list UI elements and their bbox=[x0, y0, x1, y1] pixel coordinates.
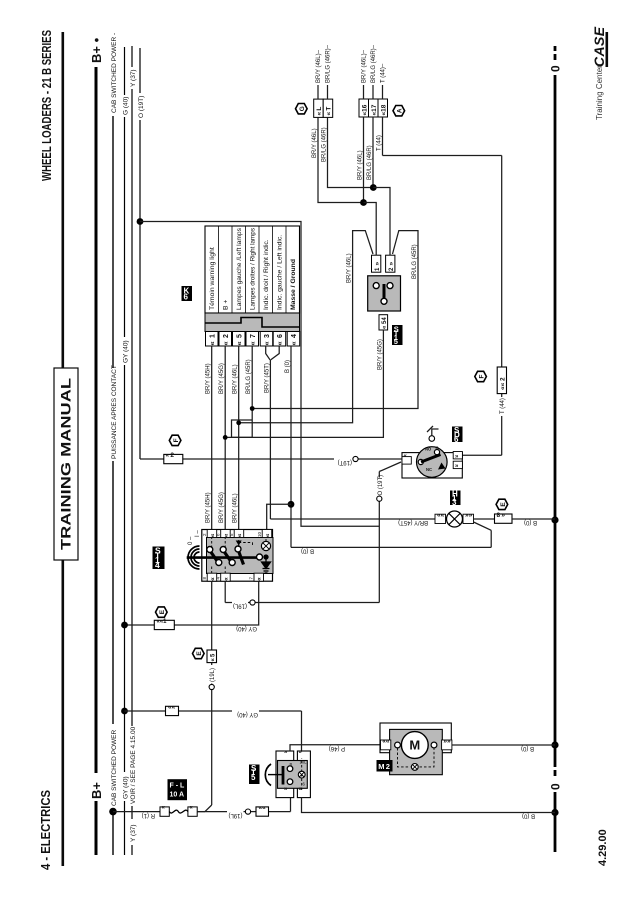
junction ground-ST5 bbox=[551, 809, 558, 816]
wire BR/Y (46L) K6 pin5 to ST14 pin5 bbox=[238, 346, 240, 530]
label K6 bbox=[182, 286, 193, 302]
hexagon G bbox=[296, 104, 308, 114]
svg-text:BR/Y (45G): BR/Y (45G) bbox=[377, 339, 383, 370]
wire B (0) M2 to ground bus bbox=[452, 744, 555, 746]
pressure switch SD6 input cell bbox=[402, 454, 411, 464]
wire 19L fuse to ST14 pin8 bbox=[197, 581, 212, 811]
wire BR/Y (45H) K6 pin1 to ST14 pin2 bbox=[211, 346, 213, 530]
switch ST14 contact circles bbox=[207, 546, 263, 566]
svg-text:GY (40): GY (40) bbox=[123, 776, 130, 799]
svg-text:10: 10 bbox=[257, 531, 262, 537]
switch ST14 lamp bbox=[261, 541, 270, 550]
svg-text:BR/Y (45T): BR/Y (45T) bbox=[264, 363, 270, 393]
junction GY bus ST5 dropper bbox=[121, 708, 128, 715]
svg-text:(19L): (19L) bbox=[233, 603, 247, 609]
svg-text:BR/LG (45R): BR/LG (45R) bbox=[412, 244, 418, 279]
svg-text:8 »: 8 » bbox=[497, 512, 506, 519]
svg-text:«18: «18 bbox=[381, 104, 388, 115]
wire GY(40) bus to ST14 pin7 bbox=[125, 581, 259, 625]
hexagon F near tag 2 bbox=[475, 371, 487, 381]
svg-text:B+ •: B+ • bbox=[89, 37, 104, 63]
svg-text:«« 2: «« 2 bbox=[500, 377, 507, 390]
svg-text:«16: «16 bbox=[362, 104, 369, 115]
flasher ST15 body bbox=[368, 276, 401, 311]
label ST15 bbox=[392, 325, 403, 347]
bus CAB SWITCHED POWER bbox=[112, 116, 114, 855]
switch ST14 left pin cells bbox=[207, 573, 263, 581]
switch ST5 pin arrows bbox=[284, 750, 303, 793]
svg-text:G: G bbox=[299, 106, 306, 111]
svg-text:4: 4 bbox=[155, 560, 160, 570]
hexagon A bbox=[393, 106, 405, 116]
svg-text:«: « bbox=[264, 533, 271, 537]
wire B (0) K6 pin4 bbox=[290, 346, 292, 547]
connector K6 pin numbers and arrows bbox=[210, 334, 299, 338]
svg-text:WHEEL LOADERS - 21 B SERIES: WHEEL LOADERS - 21 B SERIES bbox=[39, 30, 54, 181]
svg-text:10 A: 10 A bbox=[170, 792, 185, 799]
junction ground-H13 bbox=[551, 516, 558, 523]
svg-text:««: «« bbox=[259, 805, 267, 812]
switch ST5 contacts bbox=[283, 766, 293, 785]
svg-text:BR/LG (46R)–: BR/LG (46R)– bbox=[371, 44, 377, 83]
wire BR/Y (46L) bracket from K6 pin5 riser to flasher pin1 bbox=[239, 231, 373, 423]
svg-text:BR/LG (45R): BR/LG (45R) bbox=[246, 359, 252, 394]
wire B (0) branch to ST14 pin10 bbox=[267, 504, 291, 529]
svg-text:10L: 10L bbox=[300, 760, 308, 765]
svg-text:6: 6 bbox=[215, 533, 220, 536]
switch ST14 pin numbers bbox=[202, 531, 262, 579]
svg-text:»: » bbox=[388, 262, 395, 266]
svg-text:6: 6 bbox=[184, 293, 189, 302]
pressure switch SD6 body bbox=[402, 447, 462, 478]
bus O (19T) bbox=[139, 48, 141, 459]
svg-text:BR/Y (45H): BR/Y (45H) bbox=[206, 492, 212, 523]
connector cell 18 bbox=[378, 99, 388, 117]
connector cell 17 bbox=[369, 99, 379, 117]
junction GY bus pin7 dropper bbox=[121, 622, 128, 629]
svg-text:GY (40): GY (40) bbox=[236, 625, 257, 631]
tag connector on fuse wire bbox=[256, 805, 269, 817]
svg-text:F: F bbox=[478, 374, 485, 378]
junction ground-M2 bbox=[551, 741, 558, 748]
header rule bbox=[62, 32, 65, 866]
wire BR/Y (45G) K6 pin2 to ST14 pin6 bbox=[224, 346, 226, 530]
svg-text:6: 6 bbox=[277, 334, 284, 338]
svg-text:T (44): T (44) bbox=[377, 135, 383, 151]
svg-text:M: M bbox=[409, 738, 420, 753]
hexagon F near dropper tag bbox=[169, 435, 181, 445]
svg-text:CAB SWITCHED POWER: CAB SWITCHED POWER bbox=[111, 729, 118, 806]
label M2 bbox=[377, 760, 393, 772]
svg-text:BR/Y (46L)–: BR/Y (46L)– bbox=[362, 49, 368, 83]
connector K6 body bbox=[205, 226, 300, 313]
wire BR/LG (45R) K6 pin7 bbox=[251, 346, 253, 437]
label ST5 bbox=[249, 764, 260, 784]
hexagon E near tag 1 bbox=[156, 607, 168, 617]
switch ST14 lever arcs bbox=[188, 546, 200, 569]
tag connector 1 on pin7 dropper bbox=[154, 619, 174, 630]
svg-text:BR/Y (45G): BR/Y (45G) bbox=[219, 492, 225, 523]
svg-text:T (44): T (44) bbox=[500, 398, 506, 414]
wire BR/Y (46L) from connector L bbox=[318, 117, 364, 202]
switch ST5 dashed link bbox=[301, 758, 303, 790]
splice circle on pin8 wire bbox=[209, 684, 214, 689]
tag connector 2 on T44 wire bbox=[497, 367, 506, 394]
svg-text:BR/Y (46L)–: BR/Y (46L)– bbox=[316, 49, 322, 83]
motor M2 body bbox=[380, 723, 451, 775]
junction K6 pin5 riser bbox=[236, 420, 241, 425]
svg-text:E: E bbox=[500, 502, 507, 507]
svg-text:4 - ELECTRICS: 4 - ELECTRICS bbox=[38, 790, 53, 870]
pressure switch SD6 external terminal bbox=[427, 426, 439, 441]
svg-text:7: 7 bbox=[249, 577, 254, 580]
svg-text:GY (40): GY (40) bbox=[123, 340, 130, 363]
svg-text:PUISSANCE APRES CONTACT: PUISSANCE APRES CONTACT bbox=[111, 365, 118, 459]
connector cell L bbox=[314, 99, 324, 117]
svg-text:B +: B + bbox=[223, 300, 230, 310]
svg-text:»»: »» bbox=[465, 512, 473, 519]
junction CAB bus fuse dropper bbox=[109, 808, 117, 816]
motor M2 output cell bbox=[442, 738, 452, 750]
svg-text:««: «« bbox=[437, 512, 445, 519]
svg-text:7: 7 bbox=[250, 334, 257, 338]
svg-text:2: 2 bbox=[223, 334, 230, 338]
svg-text:NO: NO bbox=[425, 447, 432, 452]
junction 45G riser at K6 pin2 wire bbox=[223, 435, 228, 440]
wire ST5 ground return bbox=[302, 798, 556, 813]
svg-text:CASE: CASE bbox=[591, 26, 607, 67]
motor M2 input cell bbox=[381, 738, 391, 750]
wire P (46) ST5 to M2 bbox=[290, 745, 380, 751]
svg-text:Lampes droites / Right lamps: Lampes droites / Right lamps bbox=[250, 227, 257, 310]
switch ST5 pin numbers bbox=[290, 760, 308, 787]
lamp H13 input cell bbox=[435, 512, 446, 524]
svg-text:GY (40): GY (40) bbox=[237, 711, 258, 717]
wire O (19T) horizontal run bbox=[379, 462, 401, 603]
svg-text:M: M bbox=[378, 762, 384, 771]
wire B (0) H13 to ground bus bbox=[512, 518, 555, 520]
switch ST14 dashed links bbox=[212, 538, 266, 574]
label ST14 bbox=[153, 546, 165, 570]
label F-L 10A bbox=[168, 779, 188, 800]
connector K6 row labels bbox=[209, 227, 297, 310]
svg-text:«: « bbox=[248, 341, 257, 345]
wire BR/Y (45T) K6 pins 3+6 merge bbox=[266, 346, 280, 519]
motor M2 dashed park circuit bbox=[398, 748, 435, 767]
svg-text:BR/Y (45T): BR/Y (45T) bbox=[398, 519, 428, 525]
svg-text:O (19T): O (19T) bbox=[378, 475, 384, 496]
tag connector 2 on SD6 dropper bbox=[164, 452, 183, 464]
svg-text:B (0): B (0) bbox=[524, 519, 537, 525]
svg-text:3: 3 bbox=[452, 498, 457, 507]
svg-text:««: «« bbox=[168, 704, 176, 711]
svg-text:BR/Y (46L): BR/Y (46L) bbox=[347, 253, 353, 283]
svg-text:« L: « L bbox=[316, 107, 323, 116]
svg-text:Indic. droit / Right indic.: Indic. droit / Right indic. bbox=[263, 239, 270, 310]
training manual title box bbox=[54, 368, 78, 560]
switch ST5 body bbox=[276, 751, 310, 798]
svg-text:4: 4 bbox=[215, 577, 220, 580]
connector cell 16 bbox=[359, 99, 369, 117]
label H13 bbox=[450, 490, 461, 507]
svg-text:F: F bbox=[173, 438, 180, 442]
CASE logo bbox=[591, 26, 608, 67]
ground bus 0 bbox=[554, 46, 557, 852]
svg-text:«: « bbox=[236, 533, 243, 537]
svg-text:BR/Y (45G): BR/Y (45G) bbox=[219, 363, 225, 394]
flasher ST15 contacts bbox=[373, 283, 393, 305]
wire hop detail near riser bbox=[232, 420, 253, 437]
switch ST14 pin arrows bbox=[209, 533, 271, 581]
svg-text:0: 0 bbox=[549, 783, 563, 790]
svg-text:«: « bbox=[223, 577, 230, 581]
svg-text:4.29.00: 4.29.00 bbox=[597, 829, 609, 866]
connector cell T bbox=[323, 99, 333, 117]
svg-text:2: 2 bbox=[386, 762, 390, 771]
svg-text:«: « bbox=[235, 341, 244, 345]
wire GY (40) bus to ST5 right pin bbox=[125, 711, 302, 751]
wire BR/LG (45R) from K6 pin7 dropper to flasher pin2 bbox=[252, 231, 418, 409]
svg-text:Témoin warning light: Témoin warning light bbox=[209, 247, 216, 310]
svg-text:(19T): (19T) bbox=[338, 459, 352, 465]
splice circle on dropper bbox=[353, 456, 358, 461]
wire 19L ST14 pin4 to 19T run bbox=[225, 581, 379, 602]
svg-text:Masse / Ground: Masse / Ground bbox=[290, 259, 297, 310]
wire BR/LG (46R) from connector T bbox=[328, 117, 374, 187]
svg-text:G (40): G (40) bbox=[123, 97, 130, 115]
svg-text:BR/Y (46L): BR/Y (46L) bbox=[312, 128, 318, 158]
svg-text:(19L): (19L) bbox=[210, 668, 216, 682]
svg-text:5: 5 bbox=[394, 337, 398, 346]
svg-text:2: 2 bbox=[202, 533, 207, 536]
tag connector 8 on H13 ground wire bbox=[495, 512, 513, 524]
svg-text:E: E bbox=[196, 651, 203, 656]
svg-text:BR/Y (46L): BR/Y (46L) bbox=[233, 493, 239, 523]
switch ST5 lever arc bbox=[265, 764, 283, 786]
svg-text:6: 6 bbox=[454, 435, 459, 444]
svg-text:«17: «17 bbox=[371, 104, 378, 115]
wire H13 to tag 8 bbox=[474, 518, 495, 520]
svg-text:Y (37): Y (37) bbox=[130, 824, 137, 842]
svg-text:« 5: « 5 bbox=[210, 653, 216, 662]
svg-text:A: A bbox=[397, 108, 404, 113]
svg-text:»: » bbox=[284, 750, 289, 756]
svg-text:Indic. gauche / Left indic.: Indic. gauche / Left indic. bbox=[277, 235, 284, 310]
junction B(0) branch bbox=[288, 501, 295, 508]
switch ST14 body bbox=[202, 530, 273, 582]
svg-text:« 2: « 2 bbox=[166, 452, 175, 459]
svg-text:5: 5 bbox=[229, 533, 234, 536]
svg-text:1: 1 bbox=[375, 267, 381, 271]
svg-text:1: 1 bbox=[210, 334, 217, 338]
svg-text:O (19T): O (19T) bbox=[138, 96, 145, 118]
connector K6 pin cells bbox=[206, 332, 300, 347]
svg-text:BR/LG (46R): BR/LG (46R) bbox=[367, 145, 373, 180]
bus B+ bbox=[95, 67, 98, 855]
svg-text:3: 3 bbox=[264, 334, 271, 338]
switch ST14 internal ground symbol bbox=[262, 555, 271, 573]
splice circle on 19T run bbox=[377, 496, 382, 501]
svg-text:»»: »» bbox=[443, 738, 451, 745]
wire B (0) vertical to H13 output bbox=[291, 522, 491, 547]
svg-text:5: 5 bbox=[251, 773, 256, 782]
bus Y (37) bbox=[131, 46, 133, 855]
svg-text:«: « bbox=[262, 341, 271, 345]
switch ST14 contact blades bbox=[210, 550, 244, 565]
junction 46R bbox=[370, 184, 377, 191]
tag connector on GY dropper bbox=[166, 704, 179, 716]
svg-text:«: « bbox=[256, 577, 263, 581]
switch ST14 shaft bbox=[187, 556, 260, 559]
label SD6 bbox=[452, 426, 463, 444]
motor M2 circle bbox=[395, 732, 437, 759]
splice circle on pin4 wire bbox=[250, 600, 255, 605]
wire BR/Y (45G) flasher pin54 riser to K6 pin2 wire bbox=[225, 330, 383, 437]
svg-text:E: E bbox=[159, 609, 166, 614]
wire 46L junction to flasher pin1 bbox=[364, 203, 377, 256]
svg-text:(19L): (19L) bbox=[228, 812, 242, 818]
wire R (1) CAB bus to fuse bbox=[113, 811, 160, 813]
svg-text:R (1): R (1) bbox=[142, 812, 155, 818]
junction K6 pin7 dropper bbox=[250, 406, 255, 411]
svg-text:BR/Y (45H): BR/Y (45H) bbox=[206, 363, 212, 394]
svg-text:C: C bbox=[436, 446, 439, 451]
svg-text:« 54: « 54 bbox=[382, 317, 388, 329]
svg-text:2: 2 bbox=[389, 267, 395, 271]
switch ST14 dashed link arrow bbox=[236, 541, 242, 546]
tag connector 5 on pin8 wire bbox=[207, 650, 217, 663]
switch ST14 right pin cells bbox=[207, 530, 272, 538]
svg-text:I –: I – bbox=[195, 530, 201, 537]
switch ST5 lamp bbox=[298, 771, 305, 778]
svg-text:F - L: F - L bbox=[170, 783, 185, 790]
svg-text:Y (37): Y (37) bbox=[130, 69, 137, 87]
svg-text:«: « bbox=[275, 341, 284, 345]
svg-text:0: 0 bbox=[549, 65, 563, 72]
splice circle below fuse bbox=[245, 809, 250, 814]
svg-text:5: 5 bbox=[237, 334, 244, 338]
svg-text:0 –: 0 – bbox=[188, 536, 194, 545]
svg-text:«: « bbox=[208, 341, 217, 345]
svg-text:BR/Y (46L): BR/Y (46L) bbox=[358, 150, 364, 180]
flasher ST15 pin cell 54 bbox=[379, 315, 388, 330]
fuse F-L cells bbox=[160, 807, 197, 816]
flasher ST15 pin cell 1 bbox=[372, 255, 382, 272]
svg-text:4: 4 bbox=[291, 334, 298, 338]
svg-text:« T: « T bbox=[326, 107, 333, 116]
pressure switch SD6 output cells bbox=[453, 452, 462, 470]
svg-text:««: «« bbox=[382, 738, 390, 745]
fuse F-L element bbox=[169, 810, 188, 813]
wire O(19T) bus dropper via tag 2 to SD6 input bbox=[140, 458, 402, 460]
svg-text:B (0): B (0) bbox=[521, 745, 534, 751]
svg-text:««1: ««1 bbox=[157, 619, 168, 625]
svg-text:BR/LG (46R): BR/LG (46R) bbox=[322, 127, 328, 162]
wire T (44) from connector 18 to SD6 bbox=[383, 117, 502, 455]
lamp H13 bulb bbox=[447, 511, 463, 527]
svg-text:B (0): B (0) bbox=[522, 813, 535, 819]
svg-text:B (0): B (0) bbox=[301, 548, 314, 554]
svg-text:TRAINING MANUAL: TRAINING MANUAL bbox=[58, 377, 74, 550]
wire BR/Y (45T) from K6 3+6 to H13 bbox=[270, 518, 435, 520]
svg-text:B (0): B (0) bbox=[285, 360, 291, 373]
svg-text:T (44)–: T (44)– bbox=[381, 63, 387, 83]
wire 46R junction to flasher pin2 bbox=[373, 188, 390, 256]
hexagon E near tag 5 bbox=[193, 648, 205, 658]
lamp H13 output cell bbox=[463, 512, 474, 524]
motor M2 park contact bbox=[411, 764, 418, 771]
svg-text:B+: B+ bbox=[89, 782, 104, 799]
wire BR/Y (46L) from connector 16 bbox=[363, 117, 365, 203]
junction 46L bbox=[360, 199, 367, 206]
wire stubs right of connectors with labels bbox=[318, 85, 383, 99]
pressure switch SD6 internals bbox=[418, 446, 445, 473]
wire O(19T) second dropper staircase to y379 run bbox=[140, 222, 379, 527]
connector K6 gray key band bbox=[205, 313, 300, 332]
svg-text:P (46): P (46) bbox=[329, 745, 345, 751]
wire BR/LG (46R) from connector 17 bbox=[372, 117, 374, 188]
svg-text:VOIR / SEE PAGE 4.15.00: VOIR / SEE PAGE 4.15.00 bbox=[130, 726, 137, 804]
svg-text:BR/Y (46L): BR/Y (46L) bbox=[233, 364, 239, 394]
wire 19L below fuse bbox=[197, 798, 290, 812]
svg-text:Lampes gauche /Left lamps: Lampes gauche /Left lamps bbox=[236, 227, 243, 310]
svg-text:»: » bbox=[374, 262, 381, 266]
bus GY (40) bbox=[124, 47, 126, 855]
svg-text:Training Center: Training Center bbox=[595, 65, 604, 120]
svg-text:CAB SWITCHED POWER -: CAB SWITCHED POWER - bbox=[111, 33, 118, 113]
junction O19T bus second dropper bbox=[137, 218, 144, 225]
svg-text:BR/LG (46R)–: BR/LG (46R)– bbox=[326, 44, 332, 83]
svg-text:«: « bbox=[221, 341, 230, 345]
svg-text:NC: NC bbox=[426, 467, 432, 472]
svg-text:8: 8 bbox=[202, 577, 207, 580]
svg-text:«: « bbox=[289, 341, 298, 345]
flasher ST15 pin cell 2 bbox=[386, 255, 396, 272]
hexagon E near tag 8 bbox=[496, 499, 508, 509]
